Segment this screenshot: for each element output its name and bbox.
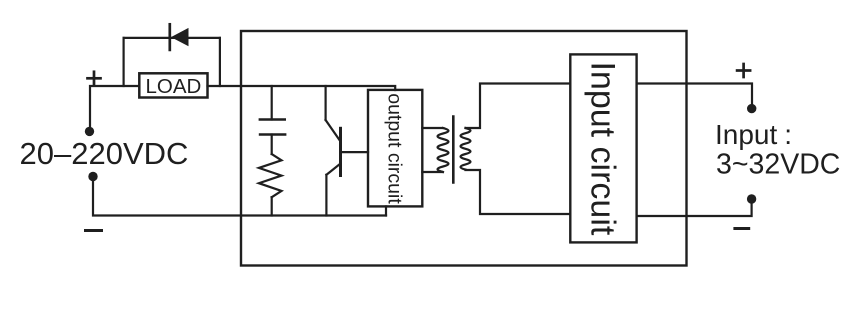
wire: secondary bottom to input circuit block bbox=[466, 170, 571, 214]
svg-text:output circuit: output circuit bbox=[383, 93, 405, 204]
wire: diode branch right vertical bbox=[219, 38, 221, 86]
transformer T1 core bbox=[452, 117, 455, 183]
wire: input circuit block to input − terminal bbox=[637, 204, 752, 217]
svg-text:20–220VDC: 20–220VDC bbox=[20, 136, 189, 171]
svg-text:3~32VDC: 3~32VDC bbox=[716, 148, 840, 180]
svg-text:Input circuit: Input circuit bbox=[584, 61, 622, 235]
wire: Q1 base to output circuit block bbox=[341, 151, 369, 153]
wire: output circuit block to transformer primary bottom bbox=[422, 171, 442, 173]
SSR module outline bbox=[241, 31, 687, 266]
transformer T1 primary winding bbox=[438, 128, 449, 172]
wire: input circuit block to input + terminal bbox=[637, 84, 752, 105]
diode D1 (flyback across LOAD) bbox=[170, 24, 189, 50]
resistor R1 (snubber) bbox=[259, 154, 282, 216]
wire: diode branch left vertical bbox=[122, 38, 124, 86]
wire: output circuit block to transformer primary top bbox=[422, 127, 442, 129]
transformer T1 secondary winding bbox=[461, 128, 471, 170]
wire: output circuit block bottom to rail bbox=[385, 206, 387, 215]
capacitor C1 (snubber) bbox=[260, 86, 285, 154]
svg-text:LOAD: LOAD bbox=[145, 75, 201, 98]
wire: secondary top to input circuit block bbox=[466, 84, 571, 129]
node: input + terminal dot bbox=[747, 104, 756, 113]
node: DC+ terminal dot bbox=[85, 127, 94, 136]
label: − (DC load side) bbox=[86, 229, 102, 232]
wire: LOAD to output circuit block (top rail) bbox=[208, 86, 396, 90]
svg-text:Input:: Input: bbox=[715, 119, 792, 150]
load block bbox=[139, 73, 207, 97]
node: DC− terminal dot bbox=[88, 172, 97, 181]
input circuit block bbox=[570, 54, 636, 242]
output circuit block bbox=[368, 90, 422, 206]
label: + (input side) bbox=[737, 64, 750, 77]
label: + (DC load side) bbox=[88, 72, 101, 85]
node: input − terminal dot bbox=[747, 194, 756, 203]
transistor Q1 bbox=[326, 86, 341, 216]
wire: diode branch top bbox=[124, 37, 220, 39]
wire: DC− terminal to bottom rail bbox=[93, 181, 386, 216]
label: − (input side) bbox=[735, 227, 749, 230]
wire: DC+ terminal to LOAD bbox=[90, 86, 139, 127]
